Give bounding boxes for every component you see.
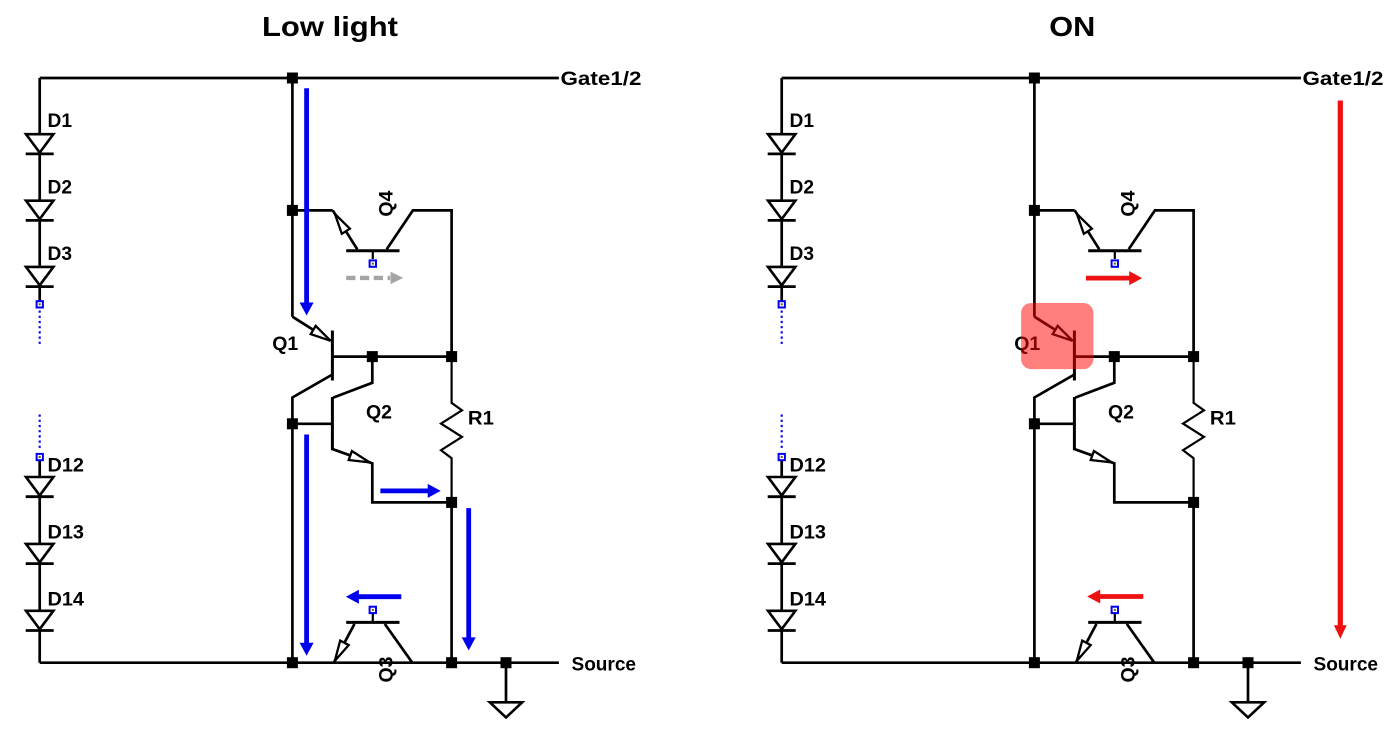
transistor Q1 (left): emitter arrow	[311, 326, 331, 341]
wire: right Q2 base lead	[1034, 422, 1074, 425]
svg-text:Q4: Q4	[1118, 190, 1140, 216]
transistor Q4 (right): emitter arrow	[1077, 214, 1092, 234]
node junction (left) at 506,663	[501, 657, 512, 668]
resistor R1 (right)	[1183, 357, 1204, 503]
current arrow (red): main gate-to-source current	[1334, 101, 1347, 639]
node junction (left) at 372,357	[367, 351, 378, 362]
svg-text:Q3: Q3	[1118, 656, 1140, 682]
node junction (right) at 1034,210	[1029, 205, 1040, 216]
transistor Q1 (left): emitter lead	[292, 317, 330, 341]
transistor Q4 (left): base stub	[372, 251, 374, 259]
svg-text:Q3: Q3	[376, 656, 398, 682]
node junction (left) at 292,78	[287, 73, 298, 84]
svg-text:Source: Source	[1314, 653, 1379, 675]
transistor Q4 (left): base bar	[346, 249, 399, 252]
transistor Q1 (right): emitter lead	[1034, 317, 1072, 341]
wire: right branch to Q4 emitter	[1034, 209, 1074, 212]
transistor Q1 (right): collector lead	[1034, 375, 1074, 663]
wire: right diode-chain upper segment	[780, 78, 783, 301]
svg-text:D13: D13	[790, 521, 827, 543]
wire: left top rail (Gate)	[40, 77, 559, 80]
diode D13 (right)	[768, 544, 795, 562]
current arrow (red): Q4 base drive right	[1086, 271, 1142, 285]
diode D12 (right)	[768, 477, 795, 495]
node junction (left) at 292,210	[287, 205, 298, 216]
ground symbol (right)	[1247, 663, 1250, 703]
node junction (right) at 1248,663	[1243, 657, 1254, 668]
node: Q4 base net marker (left)	[370, 260, 376, 266]
node: Q4 base net marker (right)	[1112, 260, 1118, 266]
transistor Q2 (right): emitter arrow	[1091, 451, 1112, 462]
wire: left Q1 base lead to R1 top	[332, 355, 451, 358]
svg-text:R1: R1	[468, 408, 494, 430]
transistor Q1 (right): base bar	[1073, 331, 1076, 381]
transistor Q4 (left): emitter arrow	[335, 214, 350, 234]
node junction (left) at 452,357	[446, 351, 457, 362]
wire: dotted continuation above D12 (right)	[781, 415, 783, 451]
diode D14 (left)	[26, 611, 53, 629]
node junction (right) at 1194,357	[1188, 351, 1199, 362]
wire: left R1 bottom to source rail	[450, 502, 453, 662]
wire: left gate vertical to Q1	[291, 78, 294, 317]
wire: dotted continuation below D3 (right)	[781, 311, 783, 345]
transistor Q1 (left): collector lead	[292, 375, 332, 663]
transistor Q1 (left): base bar	[331, 331, 334, 381]
svg-text:D1: D1	[48, 110, 73, 132]
wire: dotted continuation above D12 (left)	[39, 415, 41, 451]
transistor Q3 (left): emitter lead	[334, 624, 355, 663]
diode D1 (left)	[26, 134, 53, 152]
transistor Q3 (left): collector lead	[385, 624, 413, 663]
wire: left bottom rail (Source)	[40, 661, 559, 664]
transistor Q2 (left): emitter arrow	[349, 451, 370, 462]
svg-text:D12: D12	[48, 455, 85, 477]
svg-text:Low light: Low light	[262, 11, 398, 42]
current arrow (blue): Q2 emitter right	[380, 484, 440, 498]
wire: right R1 bottom to source rail	[1192, 502, 1195, 662]
node: net stub below D3 (right)	[779, 301, 785, 307]
current arrow (blue): Q3 base left	[346, 590, 401, 604]
current arrow (blue): Q1 collector down	[300, 435, 314, 656]
diode D3 (left)	[26, 267, 53, 285]
svg-text:D13: D13	[48, 521, 85, 543]
current arrow (gray dashed): Q4 base, off	[346, 276, 390, 280]
current arrow (blue): R1 leg down	[462, 508, 476, 650]
svg-text:Gate1/2: Gate1/2	[561, 68, 642, 90]
svg-text:ON: ON	[1049, 11, 1095, 42]
diode D13 (left)	[26, 544, 53, 562]
svg-text:R1: R1	[1210, 408, 1236, 430]
node junction (left) at 292,424	[287, 418, 298, 429]
wire: left diode-chain upper segment	[38, 78, 41, 301]
svg-text:Q2: Q2	[366, 401, 392, 423]
transistor Q4 (right): emitter lead	[1075, 210, 1100, 249]
node junction (left) at 292,663	[287, 657, 298, 668]
diode D3 (right)	[768, 267, 795, 285]
wire: right gate vertical to Q1	[1033, 78, 1036, 317]
transistor Q1 (right): emitter arrow	[1053, 326, 1073, 341]
wire: left Q2 base lead	[292, 422, 332, 425]
svg-text:D2: D2	[790, 177, 815, 199]
svg-text:Gate1/2: Gate1/2	[1303, 68, 1384, 90]
transistor Q4 (right): base bar	[1088, 249, 1141, 252]
transistor Q4 (right): base stub	[1114, 251, 1116, 259]
node junction (right) at 1194,502	[1188, 497, 1199, 508]
wire: right Q1 base lead to R1 top	[1074, 355, 1193, 358]
svg-text:Q4: Q4	[376, 190, 398, 216]
svg-text:D14: D14	[790, 588, 827, 610]
node: Q3 base net marker (right)	[1112, 607, 1118, 613]
svg-text:D12: D12	[790, 455, 827, 477]
wire: left branch to Q4 emitter	[292, 209, 332, 212]
svg-text:Q1: Q1	[272, 333, 298, 355]
node: net stub above D12 (right)	[779, 454, 785, 460]
svg-text:D3: D3	[48, 243, 73, 265]
diode D12 (left)	[26, 477, 53, 495]
transistor Q2 (left): emitter lead	[333, 449, 452, 502]
transistor Q3 (right): base stub	[1114, 614, 1116, 622]
node: net stub above D12 (left)	[37, 454, 43, 460]
node junction (right) at 1034,78	[1029, 73, 1040, 84]
transistor Q3 (left): base bar	[346, 621, 399, 624]
svg-text:D2: D2	[48, 177, 73, 199]
svg-text:Q2: Q2	[1108, 401, 1134, 423]
node junction (left) at 452,663	[446, 657, 457, 668]
transistor Q3 (right): emitter lead	[1076, 624, 1097, 663]
transistor Q3 (right): emitter arrow	[1077, 641, 1091, 661]
diode D1 (right)	[768, 134, 795, 152]
transistor Q4 (left): collector lead	[387, 210, 452, 356]
svg-text:D14: D14	[48, 588, 85, 610]
wire: dotted continuation below D3 (left)	[39, 311, 41, 345]
highlight: Q1 active (red box)	[1021, 303, 1093, 369]
transistor Q2 (right): collector lead	[1075, 357, 1114, 398]
diode D2 (right)	[768, 201, 795, 219]
diode D14 (right)	[768, 611, 795, 629]
transistor Q4 (right): collector lead	[1129, 210, 1194, 356]
resistor R1 (left)	[441, 357, 462, 503]
transistor Q2 (left): collector lead	[333, 357, 372, 398]
transistor Q3 (right): collector lead	[1127, 624, 1155, 663]
ground symbol (left)	[505, 663, 508, 703]
transistor Q3 (left): base stub	[372, 614, 374, 622]
node: net stub below D3 (left)	[37, 301, 43, 307]
wire: right top rail (Gate)	[782, 77, 1301, 80]
transistor Q3 (left): emitter arrow	[335, 641, 349, 661]
node junction (right) at 1114,357	[1109, 351, 1120, 362]
svg-text:Source: Source	[572, 653, 637, 675]
transistor Q2 (left): base bar	[331, 397, 334, 450]
diode D2 (left)	[26, 201, 53, 219]
node junction (right) at 1034,424	[1029, 418, 1040, 429]
wire: right bottom rail (Source)	[782, 661, 1301, 664]
transistor Q4 (left): emitter lead	[333, 210, 358, 249]
node junction (right) at 1034,663	[1029, 657, 1040, 668]
transistor Q2 (right): base bar	[1073, 397, 1076, 450]
transistor Q2 (right): emitter lead	[1075, 449, 1194, 502]
current arrow (blue): gate vertical down, top	[300, 88, 314, 315]
node: Q3 base net marker (left)	[370, 607, 376, 613]
wire: left diode-chain lower segment	[38, 461, 41, 663]
wire: right diode-chain lower segment	[780, 461, 783, 663]
current arrow (red): Q3 base left	[1087, 590, 1143, 604]
node junction (left) at 452,502	[446, 497, 457, 508]
svg-text:D3: D3	[790, 243, 815, 265]
node junction (right) at 1194,663	[1188, 657, 1199, 668]
transistor Q3 (right): base bar	[1088, 621, 1141, 624]
svg-text:D1: D1	[790, 110, 815, 132]
